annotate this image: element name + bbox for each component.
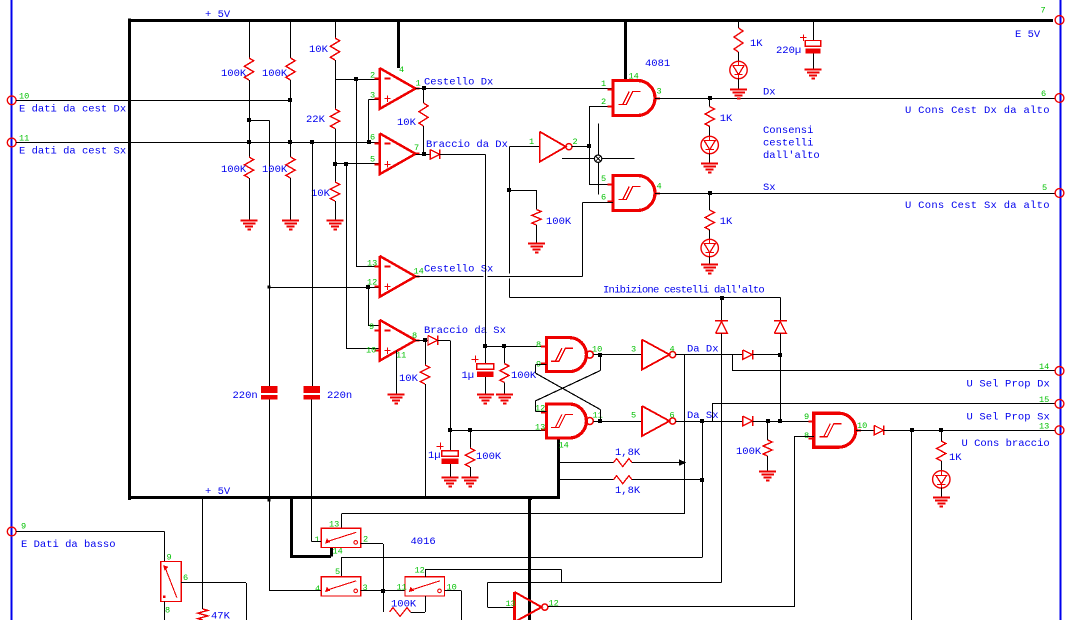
svg-text:13: 13 — [535, 423, 545, 433]
svg-text:14: 14 — [333, 547, 343, 557]
svg-text:3: 3 — [657, 87, 662, 97]
svg-text:1: 1 — [416, 79, 421, 89]
svg-text:9: 9 — [21, 522, 26, 532]
svg-text:+ 5V: + 5V — [205, 486, 231, 498]
svg-text:10K: 10K — [399, 373, 419, 385]
svg-text:10: 10 — [366, 346, 376, 356]
svg-text:13: 13 — [506, 599, 516, 609]
svg-text:1K: 1K — [949, 452, 962, 464]
svg-text:Cestello Dx: Cestello Dx — [424, 77, 493, 89]
svg-text:100K: 100K — [736, 446, 762, 458]
svg-text:1K: 1K — [720, 216, 733, 228]
svg-text:3: 3 — [363, 583, 368, 593]
svg-text:7: 7 — [1041, 6, 1046, 16]
svg-text:14: 14 — [629, 72, 639, 82]
svg-text:U Cons braccio: U Cons braccio — [962, 438, 1050, 450]
svg-text:2: 2 — [601, 97, 606, 107]
svg-text:1: 1 — [315, 535, 320, 545]
svg-text:12: 12 — [415, 566, 425, 576]
svg-text:4: 4 — [399, 65, 404, 75]
svg-text:Cestello Sx: Cestello Sx — [424, 264, 493, 276]
svg-text:8: 8 — [165, 606, 170, 616]
svg-text:10: 10 — [857, 421, 867, 431]
svg-text:1K: 1K — [750, 38, 763, 50]
svg-text:2: 2 — [573, 137, 578, 147]
svg-text:Consensi: Consensi — [763, 125, 813, 137]
svg-text:U Sel Prop Dx: U Sel Prop Dx — [967, 379, 1050, 391]
svg-text:12: 12 — [367, 278, 377, 288]
svg-text:1µ: 1µ — [462, 370, 475, 382]
svg-text:14: 14 — [1039, 362, 1049, 372]
svg-text:5: 5 — [1042, 183, 1047, 193]
svg-text:6: 6 — [601, 193, 606, 203]
svg-text:100K: 100K — [476, 451, 502, 463]
svg-text:5: 5 — [631, 411, 636, 421]
svg-text:100K: 100K — [221, 164, 247, 176]
svg-text:4: 4 — [315, 584, 320, 594]
svg-text:1µ: 1µ — [428, 450, 441, 462]
svg-text:9: 9 — [369, 322, 374, 332]
svg-text:6: 6 — [183, 573, 188, 583]
svg-text:5: 5 — [335, 567, 340, 577]
svg-text:4016: 4016 — [411, 536, 436, 548]
svg-text:7: 7 — [414, 143, 419, 153]
svg-text:13: 13 — [329, 520, 339, 530]
svg-text:100K: 100K — [391, 599, 417, 611]
svg-text:8: 8 — [536, 340, 541, 350]
svg-text:E dati da cest Dx: E dati da cest Dx — [19, 104, 126, 116]
svg-text:100K: 100K — [221, 68, 247, 80]
svg-text:5: 5 — [601, 174, 606, 184]
svg-text:14: 14 — [414, 267, 424, 277]
svg-text:1: 1 — [601, 79, 606, 89]
svg-text:6: 6 — [670, 411, 675, 421]
svg-text:10K: 10K — [397, 117, 417, 129]
svg-text:9: 9 — [804, 412, 809, 422]
svg-text:8: 8 — [412, 331, 417, 341]
svg-text:10K: 10K — [311, 188, 331, 200]
svg-text:1: 1 — [529, 137, 534, 147]
svg-text:220µ: 220µ — [776, 45, 801, 57]
svg-text:dall'alto: dall'alto — [763, 150, 820, 162]
svg-text:Sx: Sx — [763, 182, 776, 194]
svg-text:2: 2 — [370, 71, 375, 81]
svg-text:100K: 100K — [262, 68, 288, 80]
svg-text:100K: 100K — [546, 216, 572, 228]
svg-text:1,8K: 1,8K — [615, 447, 641, 459]
svg-text:6: 6 — [1041, 89, 1046, 99]
svg-text:U Sel Prop Sx: U Sel Prop Sx — [967, 412, 1050, 424]
svg-text:47K: 47K — [211, 611, 231, 620]
svg-text:Da Dx: Da Dx — [687, 344, 719, 356]
svg-text:E 5V: E 5V — [1015, 29, 1041, 41]
svg-text:5: 5 — [370, 155, 375, 165]
svg-text:15: 15 — [1039, 395, 1049, 405]
svg-text:220n: 220n — [233, 390, 258, 402]
svg-text:100K: 100K — [511, 370, 537, 382]
svg-text:13: 13 — [1039, 422, 1049, 432]
svg-text:Inibizione cestelli dall'alto: Inibizione cestelli dall'alto — [603, 285, 764, 297]
svg-text:Braccio da Sx: Braccio da Sx — [424, 325, 506, 337]
svg-text:1,8K: 1,8K — [615, 485, 641, 497]
svg-text:4: 4 — [657, 182, 662, 192]
svg-text:+ 5V: + 5V — [205, 9, 231, 21]
svg-text:11: 11 — [397, 583, 407, 593]
svg-text:9: 9 — [167, 553, 172, 563]
svg-text:13: 13 — [367, 259, 377, 269]
svg-text:3: 3 — [370, 91, 375, 101]
svg-text:22K: 22K — [306, 114, 326, 126]
svg-text:220n: 220n — [327, 390, 352, 402]
svg-text:10K: 10K — [309, 44, 329, 56]
svg-text:11: 11 — [396, 351, 406, 361]
svg-text:U Cons Cest Dx da alto: U Cons Cest Dx da alto — [905, 105, 1050, 117]
svg-text:4081: 4081 — [645, 58, 670, 70]
svg-text:cestelli: cestelli — [763, 138, 813, 150]
svg-text:U Cons Cest Sx da alto: U Cons Cest Sx da alto — [905, 200, 1050, 212]
svg-text:6: 6 — [370, 133, 375, 143]
svg-text:E Dati da basso: E Dati da basso — [21, 539, 116, 551]
svg-text:E dati da cest Sx: E dati da cest Sx — [19, 146, 126, 158]
svg-text:1K: 1K — [720, 113, 733, 125]
svg-text:4: 4 — [670, 345, 675, 355]
svg-text:Braccio da Dx: Braccio da Dx — [426, 139, 508, 151]
svg-text:3: 3 — [631, 345, 636, 355]
svg-text:14: 14 — [559, 441, 569, 451]
svg-text:Dx: Dx — [763, 87, 776, 99]
svg-text:100K: 100K — [262, 164, 288, 176]
